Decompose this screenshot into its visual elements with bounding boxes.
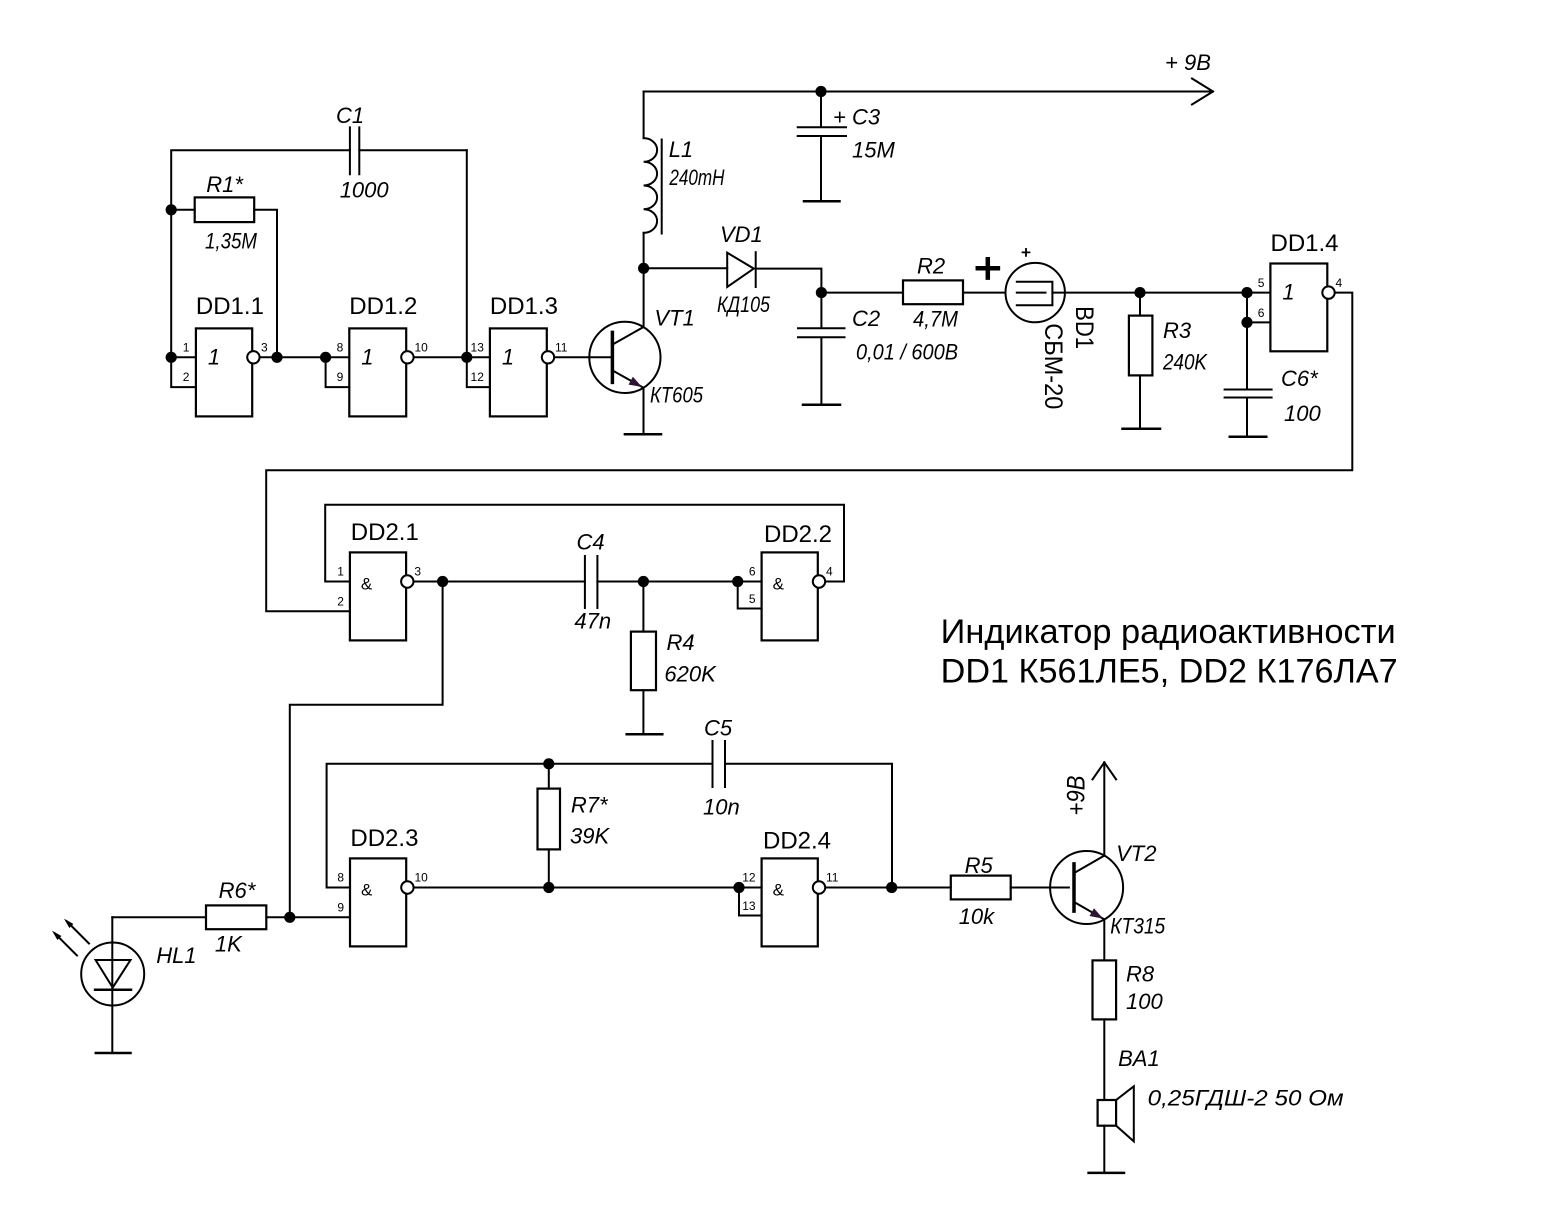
svg-text:1,35М: 1,35М — [205, 229, 258, 254]
svg-text:0,25ГДШ-2 50 Ом: 0,25ГДШ-2 50 Ом — [1148, 1086, 1344, 1111]
svg-text:100: 100 — [1284, 401, 1321, 426]
svg-text:C4: C4 — [577, 530, 605, 555]
svg-text:R7*: R7* — [571, 793, 609, 818]
svg-text:1: 1 — [361, 344, 373, 369]
svg-text:DD2.1: DD2.1 — [351, 519, 419, 546]
svg-text:DD1.1: DD1.1 — [196, 293, 264, 320]
svg-text:11: 11 — [826, 871, 839, 885]
svg-text:6: 6 — [749, 565, 756, 579]
svg-text:DD1 К561ЛЕ5, DD2 К176ЛА7: DD1 К561ЛЕ5, DD2 К176ЛА7 — [941, 653, 1398, 691]
svg-text:&: & — [773, 881, 785, 900]
svg-text:DD1.3: DD1.3 — [490, 293, 558, 320]
svg-text:VT1: VT1 — [654, 306, 694, 331]
svg-text:1: 1 — [502, 344, 514, 369]
svg-text:R1*: R1* — [206, 172, 244, 197]
svg-text:1000: 1000 — [340, 178, 390, 203]
svg-text:1: 1 — [337, 565, 344, 579]
svg-text:R3: R3 — [1163, 318, 1192, 343]
svg-text:DD2.3: DD2.3 — [350, 825, 418, 852]
svg-text:6: 6 — [1258, 306, 1265, 320]
svg-text:R8: R8 — [1126, 962, 1155, 987]
svg-text:10: 10 — [415, 871, 429, 885]
svg-text:HL1: HL1 — [156, 943, 196, 968]
svg-text:0,01 / 600В: 0,01 / 600В — [856, 340, 958, 365]
svg-text:DD1.4: DD1.4 — [1271, 230, 1339, 257]
svg-text:4,7М: 4,7М — [913, 307, 959, 332]
svg-text:C5: C5 — [704, 716, 733, 741]
svg-text:3: 3 — [261, 340, 268, 354]
svg-text:620K: 620K — [664, 662, 717, 687]
svg-text:5: 5 — [749, 592, 756, 606]
svg-text:13: 13 — [471, 340, 485, 354]
svg-text:BD1: BD1 — [1070, 306, 1098, 349]
svg-text:1: 1 — [1282, 280, 1294, 305]
svg-text:11: 11 — [555, 340, 568, 354]
svg-text:12: 12 — [742, 871, 756, 885]
svg-text:C1: C1 — [336, 103, 364, 128]
svg-text:8: 8 — [337, 340, 344, 354]
svg-text:&: & — [361, 575, 373, 594]
svg-text:1: 1 — [208, 344, 220, 369]
svg-text:C2: C2 — [852, 306, 880, 331]
svg-text:10n: 10n — [703, 795, 740, 820]
svg-text:&: & — [361, 881, 373, 900]
svg-text:КД105: КД105 — [717, 292, 771, 317]
svg-text:&: & — [773, 575, 785, 594]
svg-text:5: 5 — [1258, 276, 1265, 290]
svg-text:1K: 1K — [215, 932, 243, 957]
svg-text:240K: 240K — [1162, 350, 1208, 375]
svg-text:R2: R2 — [917, 254, 945, 279]
svg-text:10k: 10k — [959, 904, 995, 929]
svg-text:L1: L1 — [669, 137, 693, 162]
svg-text:СБМ-20: СБМ-20 — [1039, 323, 1067, 409]
svg-text:R6*: R6* — [219, 878, 257, 903]
svg-text:R4: R4 — [667, 630, 695, 655]
svg-text:КТ605: КТ605 — [650, 383, 704, 408]
svg-text:Индикатор радиоактивности: Индикатор радиоактивности — [941, 613, 1396, 651]
svg-text:DD1.2: DD1.2 — [349, 293, 417, 320]
svg-text:8: 8 — [337, 871, 344, 885]
svg-text:2: 2 — [183, 370, 190, 384]
svg-text:DD2.2: DD2.2 — [764, 521, 832, 548]
svg-text:12: 12 — [471, 370, 485, 384]
svg-text:47n: 47n — [574, 609, 611, 634]
svg-text:9: 9 — [337, 370, 344, 384]
svg-text:10: 10 — [415, 340, 429, 354]
svg-text:R5: R5 — [965, 853, 994, 878]
svg-text:BA1: BA1 — [1118, 1046, 1160, 1071]
svg-text:+ 9В: + 9В — [1165, 50, 1211, 75]
svg-text:VD1: VD1 — [720, 222, 763, 247]
svg-text:2: 2 — [337, 594, 344, 608]
svg-text:4: 4 — [826, 565, 833, 579]
svg-text:+9В: +9В — [1063, 776, 1091, 816]
svg-text:3: 3 — [414, 565, 421, 579]
svg-text:39K: 39K — [570, 824, 610, 849]
svg-text:15M: 15M — [852, 138, 895, 163]
svg-text:13: 13 — [742, 899, 756, 913]
svg-text:100: 100 — [1126, 989, 1163, 1014]
svg-text:4: 4 — [1336, 276, 1343, 290]
svg-text:1: 1 — [183, 340, 190, 354]
svg-text:240mH: 240mH — [669, 165, 725, 190]
svg-text:КТ315: КТ315 — [1110, 914, 1166, 939]
svg-text:C6*: C6* — [1281, 366, 1319, 391]
svg-text:VT2: VT2 — [1116, 841, 1156, 866]
svg-text:DD2.4: DD2.4 — [763, 828, 831, 855]
svg-text:9: 9 — [337, 900, 344, 914]
svg-text:+ C3: + C3 — [833, 105, 881, 130]
